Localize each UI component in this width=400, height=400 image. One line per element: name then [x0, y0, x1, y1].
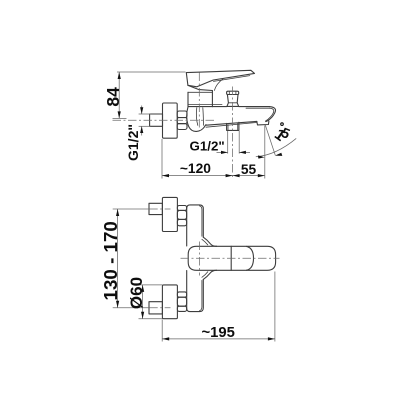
svg-text:G1/2": G1/2" [190, 138, 225, 153]
svg-text:~195: ~195 [202, 325, 235, 341]
svg-text:G1/2": G1/2" [125, 124, 141, 161]
svg-text:84: 84 [103, 87, 123, 107]
svg-text:55: 55 [241, 162, 257, 177]
svg-text:~120: ~120 [180, 161, 211, 176]
svg-text:Ø60: Ø60 [127, 277, 146, 309]
svg-text:130 - 170: 130 - 170 [100, 221, 121, 300]
